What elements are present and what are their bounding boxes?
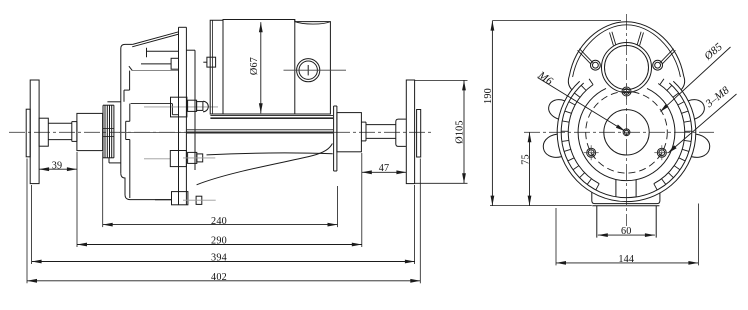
- svg-text:402: 402: [211, 272, 227, 283]
- svg-text:47: 47: [379, 163, 390, 174]
- svg-text:75: 75: [520, 154, 531, 165]
- svg-text:Ø105: Ø105: [455, 120, 466, 143]
- svg-text:60: 60: [621, 226, 632, 237]
- svg-text:190: 190: [483, 88, 494, 104]
- svg-text:144: 144: [618, 254, 634, 265]
- svg-text:39: 39: [52, 160, 63, 171]
- svg-text:240: 240: [211, 216, 227, 227]
- svg-text:290: 290: [211, 236, 227, 247]
- svg-text:394: 394: [211, 253, 227, 264]
- svg-text:Ø67: Ø67: [249, 57, 260, 75]
